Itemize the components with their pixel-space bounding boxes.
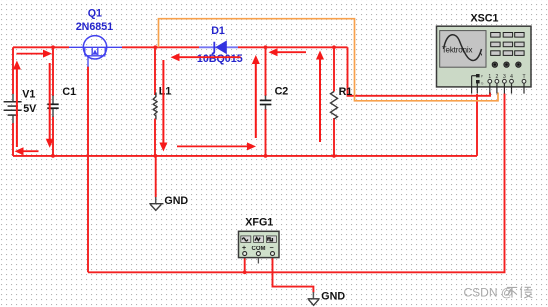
diode D1 [197, 25, 243, 65]
function generator XFG1 [239, 216, 280, 263]
wire bottom rail [13, 155, 477, 157]
arrow D1 left [171, 53, 241, 61]
node R1 bottom [332, 154, 336, 158]
wire L1 branch [154, 47, 156, 156]
svg-text:XFG1: XFG1 [245, 216, 273, 228]
svg-text:−: − [270, 245, 274, 252]
arrow L1 down [159, 60, 167, 152]
svg-text:V1: V1 [22, 89, 35, 101]
svg-text:G: G [481, 81, 484, 85]
ground GND1 [149, 195, 188, 210]
arrow L1-C2 right [177, 142, 256, 150]
wire XFG plus [244, 257, 246, 272]
svg-text:C1: C1 [62, 86, 76, 98]
svg-text:CSDN @: CSDN @ [464, 285, 514, 299]
svg-text:10BQ015: 10BQ015 [197, 53, 243, 65]
node L1 bottom [153, 154, 157, 158]
svg-text:GND: GND [164, 195, 188, 207]
resistor R1 [331, 86, 353, 119]
svg-text:Q1: Q1 [88, 8, 102, 20]
svg-text:R1: R1 [339, 86, 353, 98]
node C1 bottom [51, 154, 55, 158]
svg-text:GND: GND [321, 290, 345, 302]
svg-text:T: T [522, 74, 525, 80]
svg-text:C2: C2 [275, 86, 289, 98]
wire GND1 stub [155, 156, 157, 197]
svg-text:XSC1: XSC1 [471, 12, 499, 24]
wire C1 branch [52, 47, 54, 156]
node R1 top [332, 45, 336, 49]
arrow C2 up [252, 55, 260, 138]
svg-text:D1: D1 [211, 25, 225, 37]
wire scope probe B [476, 94, 478, 156]
wire XFG minus to GND2 [273, 257, 314, 293]
svg-text:+: + [242, 245, 246, 252]
svg-text:Tektronix: Tektronix [442, 46, 473, 55]
arrow V1 up [13, 61, 21, 148]
node L1 top [153, 45, 157, 49]
wire bottom long [88, 94, 505, 273]
node C2 top [264, 45, 268, 49]
transistor Q1 [69, 8, 122, 67]
svg-text:2: 2 [496, 74, 499, 80]
wire C2 branch [265, 47, 267, 156]
wire left rail [12, 47, 14, 156]
svg-text:2N6851: 2N6851 [76, 21, 113, 33]
wire scope probe A [348, 47, 491, 96]
arrow R1 up [316, 51, 324, 143]
arrow bottom-left left [15, 147, 39, 155]
oscilloscope XSC1 [437, 12, 532, 93]
ground GND2 [308, 290, 346, 305]
svg-text:4: 4 [510, 74, 513, 80]
arrow top-left right [17, 50, 53, 58]
wire top rail [13, 46, 348, 48]
watermark [464, 285, 533, 299]
capacitor C2 [260, 86, 289, 110]
wire gate branch [87, 67, 89, 273]
inductor L1 [153, 86, 171, 119]
svg-text:1: 1 [488, 74, 491, 80]
capacitor C1 [47, 86, 76, 117]
node C1 top [51, 45, 55, 49]
svg-text:3: 3 [503, 74, 506, 80]
node C2 bottom [264, 154, 268, 158]
arrow top C2-R1 left [269, 48, 307, 56]
probe P pins [472, 74, 484, 94]
wire R1 branch [333, 47, 335, 156]
svg-text:L1: L1 [159, 86, 172, 98]
svg-text:5V: 5V [23, 103, 37, 115]
arrow C1 down [46, 63, 54, 148]
wire orange scope ch2 [159, 19, 499, 101]
battery V1 [4, 89, 38, 124]
node XFG plus junction [243, 270, 247, 274]
